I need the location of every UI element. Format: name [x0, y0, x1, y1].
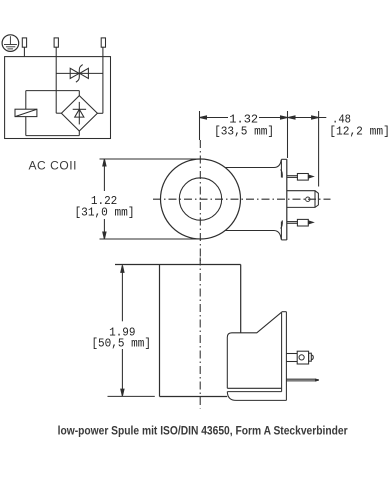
svg-text:[50,5 mm]: [50,5 mm] [91, 337, 151, 351]
svg-text:AC COII: AC COII [29, 158, 78, 172]
svg-text:[33,5 mm]: [33,5 mm] [214, 125, 274, 139]
svg-text:low-power Spule mit ISO/DIN 43: low-power Spule mit ISO/DIN 43650, Form … [58, 425, 348, 437]
svg-text:[31,0 mm]: [31,0 mm] [75, 205, 135, 219]
svg-text:[12,2 mm]: [12,2 mm] [329, 125, 390, 139]
